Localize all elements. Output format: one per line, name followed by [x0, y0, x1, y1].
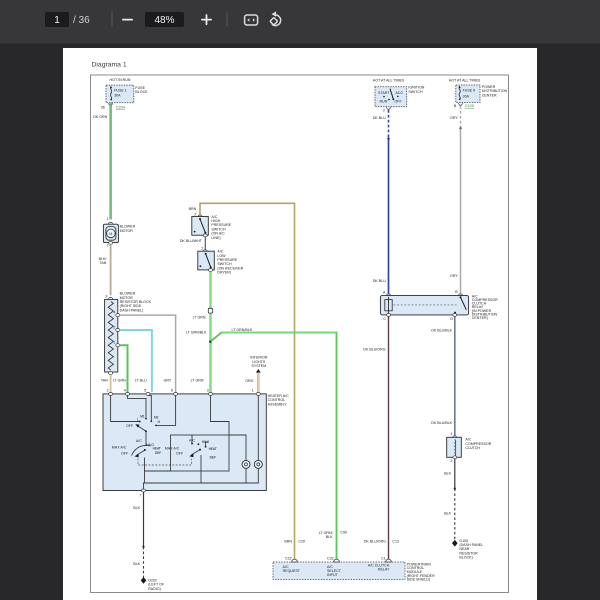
- svg-text:6: 6: [171, 388, 173, 392]
- svg-text:OFF: OFF: [395, 100, 403, 104]
- svg-text:4: 4: [124, 388, 126, 392]
- svg-text:2: 2: [383, 108, 385, 112]
- svg-text:/ 36: / 36: [73, 15, 90, 26]
- svg-text:LT GRN: LT GRN: [113, 379, 126, 383]
- bottom rail: [245, 468, 247, 483]
- svg-text:LINE): LINE): [211, 236, 220, 240]
- svg-text:HEAT: HEAT: [153, 446, 161, 450]
- svg-text:BLK: BLK: [133, 562, 140, 566]
- fuse F1 symbol: [110, 86, 111, 100]
- svg-text:SYSTEM: SYSTEM: [251, 364, 266, 368]
- svg-text:36: 36: [101, 105, 105, 109]
- svg-text:RELAY: RELAY: [378, 567, 390, 571]
- svg-text:2: 2: [201, 247, 203, 251]
- svg-text:M2: M2: [154, 416, 159, 420]
- svg-text:RADIO): RADIO): [148, 587, 161, 591]
- svg-text:L: L: [137, 417, 139, 421]
- svg-text:ACC: ACC: [396, 91, 404, 95]
- svg-text:1: 1: [54, 15, 60, 26]
- svg-text:SIDE SHIELD): SIDE SHIELD): [407, 578, 431, 582]
- wire BRN from high pressure switch to PCM: [200, 203, 295, 562]
- svg-text:1: 1: [107, 217, 109, 221]
- svg-text:2: 2: [113, 325, 115, 329]
- diagram border frame: [91, 75, 509, 593]
- svg-text:DEF: DEF: [155, 451, 161, 455]
- svg-text:2: 2: [107, 388, 109, 392]
- svg-text:BLK: BLK: [444, 512, 451, 516]
- svg-text:1: 1: [450, 432, 452, 436]
- svg-text:GRY: GRY: [164, 379, 172, 383]
- svg-text:ASSEMBLY: ASSEMBLY: [268, 402, 288, 406]
- svg-text:BLOCK: BLOCK: [135, 90, 148, 94]
- svg-text:BLK: BLK: [133, 506, 140, 510]
- svg-text:RUN: RUN: [380, 100, 388, 104]
- svg-text:MAX A/C: MAX A/C: [165, 447, 180, 451]
- rotate icon: [270, 15, 281, 26]
- svg-text:DK BLU/WHT: DK BLU/WHT: [180, 239, 203, 243]
- svg-text:DK BLU: DK BLU: [373, 279, 386, 283]
- svg-text:DRYER): DRYER): [217, 271, 231, 275]
- wire BLK solid: [454, 459, 456, 489]
- svg-text:GRY: GRY: [450, 274, 458, 278]
- svg-text:2: 2: [450, 459, 452, 463]
- svg-text:CLUTCH: CLUTCH: [465, 446, 480, 450]
- powertrain control module box: [273, 562, 405, 580]
- svg-text:TAN: TAN: [99, 261, 106, 265]
- wire BLK/TAN: [110, 244, 112, 295]
- zoom level box: [145, 12, 184, 27]
- svg-text:DK BLU/ORG: DK BLU/ORG: [363, 347, 385, 351]
- svg-text:HEAT: HEAT: [209, 447, 217, 451]
- mode switch 1 rotor arc: [132, 445, 151, 455]
- svg-text:A/C: A/C: [136, 439, 142, 443]
- svg-text:1: 1: [113, 341, 115, 345]
- wire LT BLU from pin2: [120, 330, 152, 392]
- wire DK BLU solid: [388, 139, 390, 294]
- svg-text:C120: C120: [465, 104, 474, 108]
- svg-text:DK BLU/ORG: DK BLU/ORG: [364, 540, 386, 544]
- svg-text:C33: C33: [327, 557, 334, 561]
- svg-text:C204: C204: [116, 105, 125, 109]
- svg-text:C13: C13: [392, 540, 399, 544]
- svg-text:BLK: BLK: [326, 535, 333, 539]
- svg-text:CENTER: CENTER: [482, 93, 497, 97]
- svg-text:BRN: BRN: [189, 207, 197, 211]
- svg-text:LT GRN/BLK: LT GRN/BLK: [232, 328, 253, 332]
- wire DK GRN vertical: [109, 103, 111, 220]
- svg-text:DEF: DEF: [210, 455, 216, 459]
- svg-text:LT BLU: LT BLU: [135, 379, 147, 383]
- lamp L1: [242, 460, 250, 468]
- white PDF page: [63, 48, 537, 600]
- A/C compressor clutch: [447, 437, 462, 457]
- ignition switch box: [375, 87, 407, 107]
- wire GRY from pin4: [120, 315, 176, 392]
- svg-text:7: 7: [140, 493, 142, 497]
- wire from pin3 to sub-box: [211, 395, 230, 435]
- wire BLK dashed: [454, 489, 456, 540]
- wire GRY solid: [460, 128, 462, 294]
- wire LT GRN down to control assembly: [210, 272, 212, 393]
- svg-text:C20: C20: [298, 540, 305, 544]
- fan switch internal wires: [111, 395, 140, 421]
- fuse F1 block box: [106, 85, 134, 103]
- svg-text:FUSE 6: FUSE 6: [463, 88, 476, 92]
- bottom pin 7: [142, 489, 146, 492]
- junction node: [209, 340, 212, 343]
- inline connector on LT GRN: [208, 308, 212, 313]
- svg-text:DK BLU/BLK: DK BLU/BLK: [431, 421, 452, 425]
- separator: [227, 13, 228, 27]
- svg-text:30A: 30A: [463, 94, 470, 98]
- svg-text:BLK: BLK: [444, 472, 451, 476]
- svg-text:LT GRN: LT GRN: [193, 316, 206, 320]
- svg-text:D: D: [450, 317, 453, 321]
- toolbar bar: [0, 0, 600, 44]
- svg-text:REQUEST: REQUEST: [283, 569, 301, 573]
- fuse F6 symbol: [459, 86, 460, 100]
- A/C compressor clutch relay: [380, 295, 468, 315]
- svg-text:C1: C1: [381, 557, 386, 561]
- svg-text:HOT AT ALL TIMES: HOT AT ALL TIMES: [449, 78, 481, 82]
- svg-text:5: 5: [144, 388, 146, 392]
- svg-text:4: 4: [113, 310, 115, 314]
- svg-text:C: C: [383, 317, 386, 321]
- wire DK BLU dashed: [388, 110, 390, 137]
- svg-text:INPUT: INPUT: [327, 573, 339, 577]
- svg-text:OFF: OFF: [126, 424, 134, 428]
- mode switch 2 internals: [191, 435, 193, 444]
- svg-text:2: 2: [107, 244, 109, 248]
- svg-text:BRN: BRN: [284, 540, 292, 544]
- resistor zigzag: [108, 302, 113, 370]
- wire DK BLU/WHT: [204, 237, 206, 250]
- resistor bottom pin: [109, 372, 113, 375]
- svg-text:DK BLU: DK BLU: [373, 116, 386, 120]
- svg-text:HOT AT ALL TIMES: HOT AT ALL TIMES: [373, 78, 405, 82]
- svg-text:SWITCH: SWITCH: [408, 90, 423, 94]
- wire GRY dashed: [460, 106, 462, 127]
- svg-text:LT GRN/BLK: LT GRN/BLK: [186, 331, 207, 335]
- wire LT GRN from pin1: [120, 345, 128, 392]
- wire TAN: [110, 375, 112, 393]
- svg-text:OFF: OFF: [176, 451, 184, 455]
- lamp L2: [254, 460, 262, 468]
- svg-text:48%: 48%: [154, 15, 174, 26]
- svg-text:3: 3: [207, 388, 209, 392]
- svg-text:1: 1: [252, 388, 254, 392]
- svg-text:DASH PANEL): DASH PANEL): [120, 308, 144, 312]
- A/C high pressure switch: [192, 217, 209, 236]
- relay pins C and D: [387, 313, 391, 316]
- svg-text:LT GRN: LT GRN: [191, 379, 204, 383]
- svg-text:FUSE 1: FUSE 1: [114, 89, 127, 93]
- svg-text:TAN: TAN: [101, 379, 108, 383]
- heater A/C control assembly box: [103, 394, 266, 491]
- svg-text:HOT IN RUN: HOT IN RUN: [110, 78, 131, 82]
- wire ORG: [257, 373, 259, 393]
- svg-text:START: START: [378, 91, 390, 95]
- blower motor resistor block: [105, 299, 118, 372]
- fit-to-width icon: [245, 15, 258, 25]
- svg-text:MAX A/C: MAX A/C: [112, 446, 127, 450]
- svg-text:C90: C90: [340, 531, 347, 535]
- svg-text:Diagrama 1: Diagrama 1: [92, 62, 127, 69]
- svg-text:3: 3: [105, 294, 107, 298]
- svg-text:BLOCK): BLOCK): [459, 556, 472, 560]
- wire DK BLU/ORG: [388, 316, 390, 562]
- svg-text:CENTER): CENTER): [472, 316, 488, 320]
- linkage dashes: [138, 459, 192, 466]
- top pin ellipses: [109, 392, 113, 395]
- svg-text:OFF: OFF: [121, 452, 129, 456]
- svg-text:C22: C22: [285, 557, 292, 561]
- page number input box: [45, 12, 69, 27]
- fan switch contacts: [139, 421, 141, 423]
- svg-text:30A: 30A: [114, 94, 121, 98]
- wire BLK from pin7: [143, 492, 145, 547]
- ground G202: [141, 577, 147, 584]
- svg-text:2: 2: [194, 213, 196, 217]
- svg-text:ORG: ORG: [245, 379, 253, 383]
- zoom out minus: [122, 19, 133, 21]
- svg-text:GRY: GRY: [450, 116, 458, 120]
- separator: [112, 13, 113, 27]
- svg-text:M: M: [109, 232, 112, 236]
- svg-text:M1: M1: [140, 414, 145, 418]
- A/C low pressure switch: [198, 251, 215, 270]
- blower motor M1: [103, 224, 118, 242]
- wire DK BLU/BLK: [454, 316, 456, 435]
- lamp wires right: [229, 435, 246, 460]
- zoom in plus: [201, 19, 212, 21]
- wire LT GRN/BLK branch to PCM: [211, 333, 337, 563]
- svg-text:DK GRN: DK GRN: [93, 115, 107, 119]
- fuse F6 box (PDC): [456, 85, 480, 103]
- mode switch 2 sub-box: [171, 435, 230, 471]
- svg-text:MOTOR: MOTOR: [120, 229, 134, 233]
- clutch pin 2: [453, 456, 457, 459]
- svg-text:DK BLU/BLK: DK BLU/BLK: [431, 328, 452, 332]
- ground G105: [452, 540, 458, 547]
